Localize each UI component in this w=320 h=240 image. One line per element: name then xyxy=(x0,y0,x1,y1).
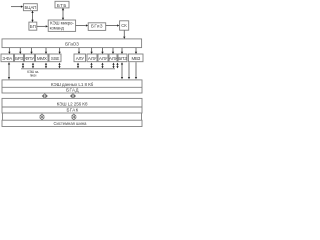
svg-text:писи: писи xyxy=(30,74,37,78)
svg-text:АЛУ: АЛУ xyxy=(99,56,108,61)
node label: write cache xyxy=(27,70,39,77)
block SK xyxy=(120,21,129,30)
svg-text:ФПУ: ФПУ xyxy=(25,56,34,61)
block L2 cache + BGAK ladder xyxy=(2,98,142,113)
block ALU3 xyxy=(98,54,108,62)
wire: BGiZ to SK xyxy=(106,24,120,26)
block system bus xyxy=(2,120,142,126)
svg-text:БП: БП xyxy=(30,24,36,29)
wire: double arrow connector 1b xyxy=(71,94,75,99)
block ALU2 xyxy=(87,54,97,62)
svg-text:Системная шина: Системная шина xyxy=(54,121,88,126)
svg-text:ММХ: ММХ xyxy=(37,56,47,61)
wire: cache to BGiZ xyxy=(76,24,89,26)
wire: side rails to system bus xyxy=(2,113,141,120)
svg-text:АЛУ: АЛУ xyxy=(76,56,85,61)
svg-text:АЛУ: АЛУ xyxy=(109,56,118,61)
svg-text:СК: СК xyxy=(121,23,127,28)
svg-text:З-ФА: З-ФА xyxy=(2,56,12,61)
block BPZ xyxy=(118,54,127,62)
block BTB xyxy=(55,1,69,8)
block SSE xyxy=(49,54,61,62)
svg-text:БГАК: БГАК xyxy=(66,108,78,113)
wire: double arrow connector 2b xyxy=(72,114,76,120)
block BCAP xyxy=(23,4,37,11)
svg-text:БЦАП: БЦАП xyxy=(25,5,37,10)
wire: input arrow into BCAP xyxy=(11,5,23,7)
wire: BP to micro-op cache xyxy=(37,25,48,27)
wire: BTB to cache (bidirectional) xyxy=(62,8,64,20)
svg-text:SSE: SSE xyxy=(51,56,60,61)
svg-text:БПЗ: БПЗ xyxy=(118,56,127,61)
wires: unit-cache exchange arrows xyxy=(22,63,115,69)
wire: double arrow connector 1a xyxy=(43,94,47,99)
block BP xyxy=(29,22,37,30)
svg-text:БГиЗ: БГиЗ xyxy=(91,24,103,29)
svg-text:КЭШ данных L1 8 Кб: КЭШ данных L1 8 Кб xyxy=(51,82,94,87)
block MMX xyxy=(36,54,49,62)
block BRZ xyxy=(15,54,24,62)
wire: SK down to decoder xyxy=(123,30,125,39)
block FPU xyxy=(25,54,35,62)
svg-text:МВЗ: МВЗ xyxy=(132,56,141,61)
block ALU4 xyxy=(109,54,118,62)
wires: decoder down arrows to execution units xyxy=(8,48,137,54)
block BGiZ xyxy=(88,23,106,31)
wire: tall bidirectional arrow left xyxy=(8,62,10,79)
svg-text:АЛУ: АЛУ xyxy=(88,56,97,61)
svg-text:БТБ: БТБ xyxy=(57,3,67,8)
block MVZ xyxy=(129,54,144,62)
wires: long exchange lines right side xyxy=(116,62,137,79)
block decoder BGaOZ xyxy=(2,39,142,48)
block ALU1 xyxy=(74,54,86,62)
block micro-op cache xyxy=(48,20,75,31)
wire: BCAP to BP (bidirectional) xyxy=(31,11,33,22)
wire: horizontal internal bus line xyxy=(21,68,115,70)
svg-text:БГАД: БГАД xyxy=(66,88,79,93)
block ZFA xyxy=(1,54,14,62)
svg-text:команд: команд xyxy=(50,25,65,30)
block L1 data cache + BGAD ladder xyxy=(2,80,142,93)
wire: double arrow connector 2a xyxy=(40,114,44,120)
svg-text:БРЗ: БРЗ xyxy=(15,56,23,61)
svg-text:КЭШ L2 256 Кб: КЭШ L2 256 Кб xyxy=(57,101,88,106)
svg-text:БГаОЗ: БГаОЗ xyxy=(65,41,79,46)
